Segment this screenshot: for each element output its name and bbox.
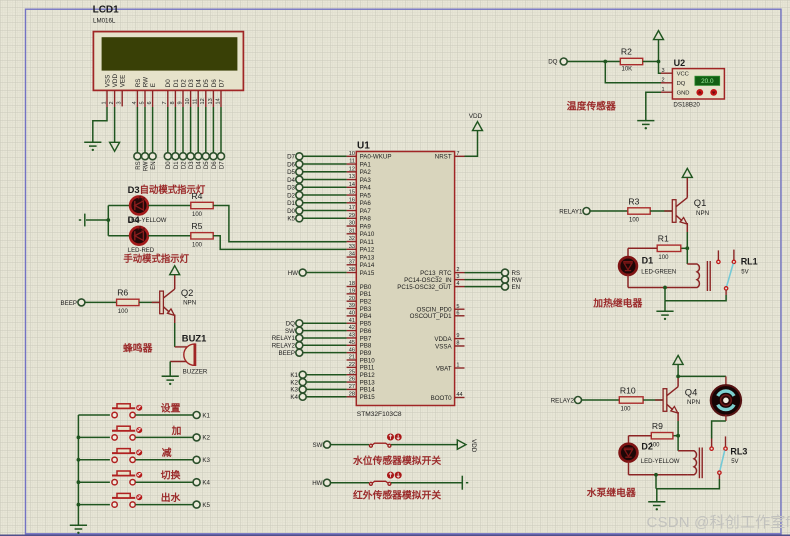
svg-text:26: 26 xyxy=(349,377,355,383)
svg-text:2: 2 xyxy=(662,77,665,83)
svg-text:PB2: PB2 xyxy=(360,299,372,306)
svg-text:VDD: VDD xyxy=(469,113,483,120)
wire SW to switch xyxy=(330,444,369,446)
wire LCD EN xyxy=(152,107,154,153)
wire K4 to U1 xyxy=(306,396,347,398)
svg-text:1: 1 xyxy=(456,363,459,369)
svg-text:10: 10 xyxy=(185,98,191,104)
svg-text:Q2: Q2 xyxy=(181,287,194,298)
svg-text:D3: D3 xyxy=(188,79,195,88)
relay coil RL3 xyxy=(678,451,696,475)
junction collector/motor xyxy=(676,375,680,379)
svg-text:LED-GREEN: LED-GREEN xyxy=(641,269,676,275)
wire D7 to U1 xyxy=(303,155,347,157)
svg-text:D2: D2 xyxy=(287,192,295,199)
svg-text:DQ: DQ xyxy=(286,320,295,327)
svg-text:RELAY1: RELAY1 xyxy=(559,208,583,215)
svg-text:水泵继电器: 水泵继电器 xyxy=(587,486,636,499)
wire LED bus vertical xyxy=(107,206,109,236)
wire LCD D7 xyxy=(220,107,222,153)
wire Q4 collector up xyxy=(677,376,679,386)
wire bus to button K3 xyxy=(78,459,110,461)
ground (RL1) xyxy=(656,311,673,320)
svg-text:STM32F103C8: STM32F103C8 xyxy=(357,411,402,418)
motor top pin xyxy=(725,376,727,386)
svg-text:VDDA: VDDA xyxy=(434,336,452,343)
svg-text:K3: K3 xyxy=(202,457,210,464)
svg-text:R9: R9 xyxy=(652,421,663,431)
motor bottom pin xyxy=(725,415,727,421)
svg-text:D6: D6 xyxy=(287,161,295,168)
button K2 xyxy=(112,426,135,440)
terminal K2 xyxy=(193,434,200,441)
svg-text:U2: U2 xyxy=(674,58,686,68)
wire U1 to RS xyxy=(465,272,502,274)
wire bus to button K5 xyxy=(78,504,110,506)
terminal D7 (LCD side) xyxy=(218,153,225,160)
wire bus to button K2 xyxy=(78,436,110,438)
motor/fan M1 xyxy=(711,385,741,415)
wire D2 cathode down xyxy=(628,461,630,474)
svg-text:3: 3 xyxy=(456,274,459,280)
wire BEEP to R6 xyxy=(85,301,117,303)
svg-text:D1: D1 xyxy=(287,200,295,207)
wire Q2 emitter down xyxy=(174,323,176,347)
svg-text:100: 100 xyxy=(192,243,203,249)
wire HW to U1 xyxy=(306,272,347,274)
U1 left pin numbers xyxy=(349,151,355,397)
svg-text:37: 37 xyxy=(349,259,355,265)
svg-text:15: 15 xyxy=(349,190,355,196)
svg-text:8: 8 xyxy=(456,341,459,347)
wire Q1 collector up xyxy=(686,178,688,198)
relay contact RL3 left xyxy=(710,447,713,450)
wire U1 to EN xyxy=(465,286,502,288)
terminal D5 (U1 side) xyxy=(296,168,303,175)
relay contact RL3 pivot xyxy=(718,471,721,474)
ground flag (right) xyxy=(462,476,468,490)
resistor R2 xyxy=(620,47,642,73)
svg-text:E: E xyxy=(150,83,157,87)
LCD pin numbers 1-14 (rotated) xyxy=(101,98,221,104)
svg-text:BOOT0: BOOT0 xyxy=(431,395,453,402)
wire rail to ground xyxy=(664,301,666,312)
LCD screen xyxy=(102,37,238,70)
wire LCD D2 xyxy=(182,107,184,153)
svg-text:K2: K2 xyxy=(202,435,210,442)
svg-text:VCC: VCC xyxy=(677,72,689,78)
resistor R9 xyxy=(650,421,673,448)
svg-text:D0: D0 xyxy=(166,161,172,169)
svg-text:34: 34 xyxy=(349,252,355,258)
wire LCD D6 xyxy=(212,107,214,153)
terminal RS (U1 side) xyxy=(502,269,509,276)
svg-text:Q1: Q1 xyxy=(694,197,707,208)
terminal DQ (sensor side) xyxy=(560,58,567,65)
svg-text:BUZZER: BUZZER xyxy=(183,368,208,375)
ground (buttons) xyxy=(70,525,87,534)
switch HW toggle buttons xyxy=(387,472,394,479)
svg-text:RW: RW xyxy=(512,277,522,284)
power VDD (LCD, down arrow) xyxy=(110,142,120,151)
wire ground flag to LED bus xyxy=(86,219,108,221)
svg-text:SW: SW xyxy=(313,442,323,449)
terminal RW (LCD side) xyxy=(142,153,149,160)
svg-text:20: 20 xyxy=(349,296,355,302)
svg-text:蜂鸣器: 蜂鸣器 xyxy=(123,341,153,354)
svg-text:8: 8 xyxy=(170,101,176,104)
svg-text:PB11: PB11 xyxy=(360,365,375,372)
U1 left pin names xyxy=(360,154,392,401)
wire bus to button K1 xyxy=(78,414,110,416)
svg-text:K5: K5 xyxy=(202,502,210,509)
svg-text:PA1: PA1 xyxy=(360,161,372,168)
wire D1 anode xyxy=(627,248,629,257)
svg-text:5: 5 xyxy=(139,101,145,104)
button K5 xyxy=(112,493,135,507)
svg-text:PB14: PB14 xyxy=(360,387,376,394)
wire RELAY1 to R3 xyxy=(590,210,628,212)
IC U2 DS18B20 body xyxy=(672,69,724,99)
switch SW toggle buttons xyxy=(387,434,394,441)
svg-text:红外传感器模拟开关: 红外传感器模拟开关 xyxy=(353,489,441,502)
svg-text:RS: RS xyxy=(512,270,521,277)
svg-text:21: 21 xyxy=(349,355,355,361)
svg-text:EN: EN xyxy=(512,284,521,291)
relay contact RL1 pivot xyxy=(724,287,727,290)
svg-text:13: 13 xyxy=(208,98,214,104)
terminal K1 xyxy=(193,412,200,419)
wire to D4 anode xyxy=(108,235,130,237)
svg-text:Q4: Q4 xyxy=(685,386,698,397)
svg-text:RELAY2: RELAY2 xyxy=(272,343,296,350)
wire switch HW to ground flag xyxy=(391,482,462,484)
svg-text:BEEP: BEEP xyxy=(278,350,295,357)
button K4 xyxy=(112,471,135,485)
wire D0 to U1 xyxy=(303,210,347,212)
svg-text:100: 100 xyxy=(192,212,203,218)
svg-text:D2: D2 xyxy=(641,441,653,451)
svg-text:PA12: PA12 xyxy=(360,247,375,254)
wire LCD RW xyxy=(144,107,146,153)
svg-text:LM016L: LM016L xyxy=(93,18,116,25)
svg-text:RELAY1: RELAY1 xyxy=(272,335,296,342)
wire U1 to RW xyxy=(465,279,502,281)
relay RL3 core xyxy=(699,448,702,479)
svg-text:5V: 5V xyxy=(731,459,738,465)
svg-text:D4: D4 xyxy=(128,214,141,225)
svg-text:R6: R6 xyxy=(117,288,128,298)
junction coil bottom xyxy=(663,286,667,290)
terminal K4 xyxy=(193,479,200,486)
svg-text:10K: 10K xyxy=(622,67,633,73)
wire D2 to U1 xyxy=(303,194,347,196)
relay contact RL3 right xyxy=(724,447,727,450)
svg-text:25: 25 xyxy=(349,369,355,375)
svg-text:LED-YELLOW: LED-YELLOW xyxy=(641,459,680,465)
svg-text:PB13: PB13 xyxy=(360,379,376,386)
LCD LCD1 body xyxy=(93,32,243,91)
terminal K3 (U1 side) xyxy=(299,386,306,393)
svg-text:42: 42 xyxy=(349,325,355,331)
wire Q1 emitter stub xyxy=(686,223,688,232)
svg-text:K5: K5 xyxy=(287,216,295,223)
wire VSS to ground xyxy=(93,107,107,142)
svg-text:D1: D1 xyxy=(173,79,180,88)
terminal D0 (LCD side) xyxy=(164,153,171,160)
junction xyxy=(106,218,110,222)
wire K2 to U1 xyxy=(306,381,347,383)
wire R6 to Q2 base xyxy=(139,301,160,303)
svg-text:1: 1 xyxy=(662,87,665,93)
transistor Q4 (NPN) xyxy=(655,386,700,413)
svg-text:PB0: PB0 xyxy=(360,284,372,291)
wire R3 to Q1 base xyxy=(650,210,672,212)
svg-text:100: 100 xyxy=(118,309,129,315)
junction coil bottom xyxy=(654,473,658,477)
wire D2 anode xyxy=(628,436,630,444)
resistor R4 xyxy=(191,191,213,218)
svg-text:PA13: PA13 xyxy=(360,254,375,261)
terminal D4 (U1 side) xyxy=(296,176,303,183)
svg-text:VBAT: VBAT xyxy=(436,365,452,372)
svg-text:2: 2 xyxy=(456,267,459,273)
svg-text:手动模式指示灯: 手动模式指示灯 xyxy=(123,253,189,264)
svg-text:K1: K1 xyxy=(290,372,298,379)
junction DQ branch xyxy=(603,60,607,64)
terminal HW (switch side) xyxy=(324,479,331,486)
svg-text:出水: 出水 xyxy=(161,491,181,504)
junction bus K2 xyxy=(77,436,81,440)
svg-text:R1: R1 xyxy=(658,234,669,244)
svg-text:VSS: VSS xyxy=(104,75,111,88)
svg-text:7: 7 xyxy=(456,151,459,157)
svg-text:VDD: VDD xyxy=(112,74,119,88)
terminal K5 (U1 side) xyxy=(296,215,303,222)
svg-text:PA8: PA8 xyxy=(360,216,372,223)
svg-text:PA4: PA4 xyxy=(360,185,372,192)
U1 left pin stubs xyxy=(347,156,357,396)
relay RL3 contact pin 2 xyxy=(725,436,727,447)
U2 temperature display 20.0 xyxy=(695,76,720,85)
svg-text:RS: RS xyxy=(135,79,142,88)
power VDD (NRST) xyxy=(473,122,483,131)
svg-text:100: 100 xyxy=(621,407,632,413)
resistor R3 xyxy=(628,196,650,223)
svg-text:D6: D6 xyxy=(211,79,218,88)
button K4 actuator marker xyxy=(136,472,142,478)
terminal RS (LCD side) xyxy=(134,153,141,160)
svg-text:20.0: 20.0 xyxy=(701,78,714,85)
wire D2 to RL3 coil bottom xyxy=(629,474,688,476)
terminal RW (U1 side) xyxy=(502,276,509,283)
terminal K5 xyxy=(193,501,200,508)
buzzer BUZ1 body xyxy=(184,344,195,365)
LCD terminal labels (rotated) xyxy=(136,161,226,172)
wire button to terminal K3 xyxy=(136,459,194,461)
svg-text:PC14-OSC32_IN: PC14-OSC32_IN xyxy=(404,277,451,284)
relay RL1 contact pin 1 xyxy=(717,250,719,260)
svg-text:6: 6 xyxy=(147,101,153,104)
svg-text:设置: 设置 xyxy=(161,401,181,414)
svg-text:29: 29 xyxy=(349,213,355,219)
LCD pin name labels (rotated) xyxy=(104,74,225,88)
svg-text:PB9: PB9 xyxy=(360,350,372,357)
junction bus K5 xyxy=(77,503,81,507)
svg-text:CSDN @科创工作室f: CSDN @科创工作室f xyxy=(647,514,790,531)
power VDD (Q4) xyxy=(673,355,683,364)
svg-text:4: 4 xyxy=(132,101,138,104)
terminal SW (U1 side) xyxy=(296,327,303,334)
svg-text:30: 30 xyxy=(349,221,355,227)
wire LCD D5 xyxy=(205,107,207,153)
wire D4 to U1 xyxy=(303,179,347,181)
svg-text:2: 2 xyxy=(109,101,115,104)
svg-text:加热继电器: 加热继电器 xyxy=(592,297,642,310)
LED D2 (LED-YELLOW) xyxy=(620,444,638,462)
svg-text:D1: D1 xyxy=(174,161,180,169)
svg-text:3: 3 xyxy=(662,68,665,74)
svg-text:D7: D7 xyxy=(219,161,225,169)
wire R4 to U1 PA11 xyxy=(213,206,346,242)
relay RL3 contact pin 1 xyxy=(711,439,713,448)
svg-text:32: 32 xyxy=(349,236,355,242)
wire LCD D1 xyxy=(174,107,176,153)
junction VCC node xyxy=(657,60,661,64)
bottom edge strip xyxy=(0,534,790,536)
wire D1 to RL1 coil bottom xyxy=(628,287,690,289)
wire R5 to U1 PA12 xyxy=(213,236,346,250)
svg-text:D0: D0 xyxy=(165,79,172,88)
svg-text:D0: D0 xyxy=(287,208,295,215)
power VDD (U2) xyxy=(654,31,664,40)
svg-text:PB7: PB7 xyxy=(360,335,372,342)
svg-text:33: 33 xyxy=(349,244,355,250)
wire K1 to U1 xyxy=(306,374,347,376)
button K1 xyxy=(112,404,135,418)
terminal D1 (LCD side) xyxy=(172,153,179,160)
wire to D3 anode xyxy=(108,205,130,207)
svg-text:PA2: PA2 xyxy=(360,169,372,176)
svg-text:14: 14 xyxy=(215,98,221,104)
svg-text:PB3: PB3 xyxy=(360,306,372,313)
svg-text:10: 10 xyxy=(349,151,355,157)
terminal EN (LCD side) xyxy=(149,153,156,160)
svg-text:NPN: NPN xyxy=(183,300,196,307)
svg-text:R5: R5 xyxy=(191,221,202,231)
U2 down button xyxy=(710,89,717,96)
relay RL1 lever (blue) xyxy=(727,264,734,287)
svg-text:PA0-WKUP: PA0-WKUP xyxy=(360,154,392,161)
wire to power xyxy=(658,40,660,62)
svg-text:K1: K1 xyxy=(202,412,210,419)
button K1 actuator marker xyxy=(136,405,142,411)
LCD pin stubs 1-14 xyxy=(107,91,221,108)
relay RL3 lever (blue) xyxy=(720,450,725,471)
button K5 actuator marker xyxy=(136,494,142,500)
svg-text:PB15: PB15 xyxy=(360,394,376,401)
wire button to terminal K5 xyxy=(136,504,194,506)
svg-text:PA14: PA14 xyxy=(360,262,375,269)
wire button to terminal K1 xyxy=(136,414,194,416)
svg-text:K3: K3 xyxy=(290,387,298,394)
svg-text:GND: GND xyxy=(677,91,690,97)
wire D6 to U1 xyxy=(303,163,347,165)
svg-text:R10: R10 xyxy=(620,385,636,395)
wire K3 to U1 xyxy=(306,388,347,390)
svg-text:6: 6 xyxy=(456,310,459,316)
svg-text:NPN: NPN xyxy=(696,210,709,217)
svg-text:PB8: PB8 xyxy=(360,343,372,350)
LED D4 (LED-RED) xyxy=(130,226,148,244)
wire R9 to D2 xyxy=(629,435,652,437)
svg-text:水位传感器模拟开关: 水位传感器模拟开关 xyxy=(353,454,441,467)
wire RL1 pivot to rail xyxy=(665,295,726,301)
wire D4 to R5 xyxy=(148,235,191,237)
svg-text:11: 11 xyxy=(349,159,355,165)
terminal EN (U1 side) xyxy=(502,283,509,290)
wire LCD RS xyxy=(136,107,138,153)
svg-text:PA11: PA11 xyxy=(360,239,375,246)
terminal RELAY1 (driver side) xyxy=(583,208,590,215)
svg-text:28: 28 xyxy=(349,391,355,397)
wire bus to button K4 xyxy=(78,481,110,483)
svg-text:PA6: PA6 xyxy=(360,200,372,207)
svg-text:D4: D4 xyxy=(196,79,203,88)
resistor R5 xyxy=(191,221,213,248)
wire U2 GND to ground xyxy=(646,92,661,120)
svg-text:RS: RS xyxy=(136,161,142,169)
svg-text:减: 减 xyxy=(162,446,172,459)
terminal D5 (LCD side) xyxy=(202,153,209,160)
svg-text:D2: D2 xyxy=(180,79,187,88)
wire SW to U1 xyxy=(303,330,347,332)
wire Q1 emitter down xyxy=(686,232,688,264)
svg-text:PB1: PB1 xyxy=(360,291,372,298)
svg-text:D1: D1 xyxy=(642,255,654,265)
svg-text:HW: HW xyxy=(288,270,298,277)
svg-text:VEE: VEE xyxy=(120,75,127,88)
switch HW contacts and lever xyxy=(369,481,391,485)
wire D1 to U1 xyxy=(303,202,347,204)
wire R1 to D1 xyxy=(628,247,657,249)
svg-text:DQ: DQ xyxy=(548,59,557,66)
ground (BUZ1) xyxy=(162,376,179,385)
junction R1/emitter xyxy=(685,246,689,250)
wire buzzer to ground xyxy=(169,362,171,377)
wire LCD D0 xyxy=(167,107,169,153)
svg-text:D4: D4 xyxy=(287,177,295,184)
wire rail to ground xyxy=(656,489,658,502)
svg-text:PC15-OSC32_OUT: PC15-OSC32_OUT xyxy=(397,284,452,291)
relay RL3 pivot stub xyxy=(718,474,720,479)
terminal D2 (U1 side) xyxy=(296,192,303,199)
wire Q4 emitter down xyxy=(677,421,679,451)
svg-text:11: 11 xyxy=(193,99,199,105)
wire VCC node to U2 pin3 xyxy=(659,62,662,74)
svg-text:4: 4 xyxy=(456,281,459,287)
wire LCD D3 xyxy=(190,107,192,153)
power VDD (Q1) xyxy=(682,168,692,177)
svg-text:PA15: PA15 xyxy=(360,270,375,277)
wire coil rail drop xyxy=(664,288,666,301)
U2 up button xyxy=(696,89,703,96)
svg-text:D3: D3 xyxy=(287,185,295,192)
power VDD (Q2) xyxy=(170,266,180,275)
terminal K3 xyxy=(193,456,200,463)
svg-text:RW: RW xyxy=(142,77,149,87)
relay RL1 pivot stub xyxy=(725,290,727,295)
